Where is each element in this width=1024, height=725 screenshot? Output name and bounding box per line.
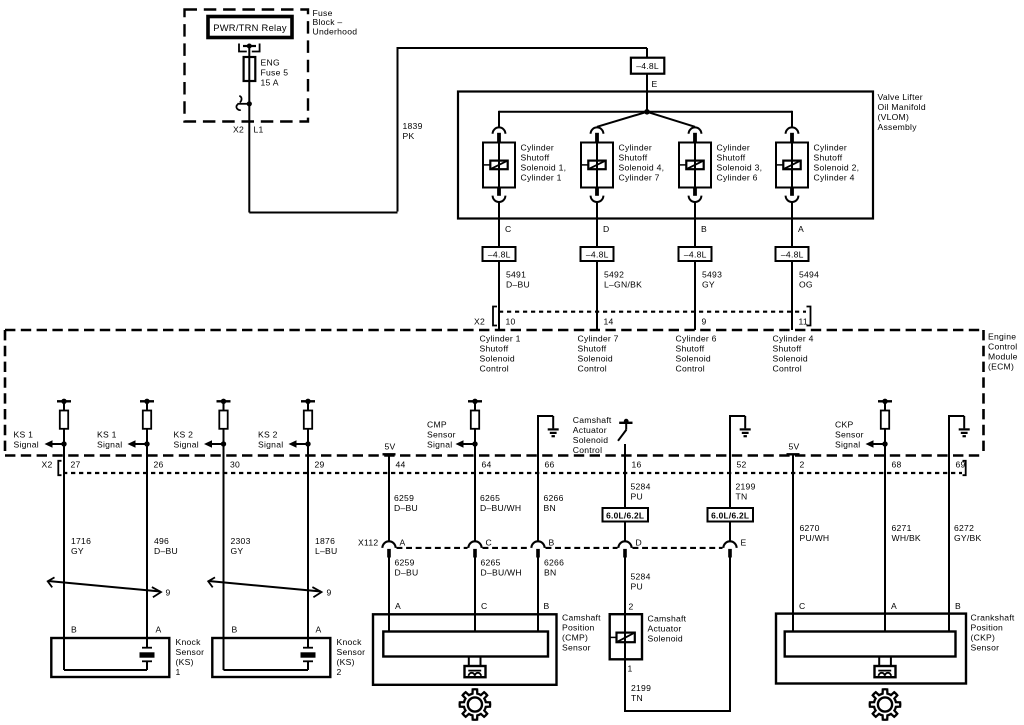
svg-text:(VLOM): (VLOM) <box>878 112 910 122</box>
twisted pair splice note 9 (KS2) <box>208 577 321 597</box>
svg-text:2199: 2199 <box>736 482 756 492</box>
svg-text:Knock: Knock <box>176 637 202 647</box>
svg-text:C: C <box>505 224 511 234</box>
connector X112 terminal A label <box>400 538 406 548</box>
connector X2 bracket right (bottom row) <box>963 461 966 475</box>
svg-text:B: B <box>544 601 550 611</box>
svg-text:11: 11 <box>799 317 808 327</box>
svg-text:E: E <box>652 79 658 89</box>
svg-text:B: B <box>955 601 961 611</box>
svg-text:BN: BN <box>544 503 556 513</box>
svg-text:–4.8L: –4.8L <box>488 249 511 259</box>
svg-text:2199: 2199 <box>631 683 651 693</box>
svg-text:9: 9 <box>166 588 171 598</box>
svg-text:Control: Control <box>573 445 602 455</box>
svg-text:OG: OG <box>799 280 813 290</box>
KS2 terminal A label <box>316 625 322 635</box>
engine option box -4.8L on wire 5493 <box>679 247 712 261</box>
svg-text:Cylinder 4: Cylinder 4 <box>773 334 814 344</box>
svg-text:Cylinder 1: Cylinder 1 <box>480 334 521 344</box>
svg-text:D–BU/WH: D–BU/WH <box>480 503 521 513</box>
svg-text:Camshaft: Camshaft <box>648 614 687 624</box>
svg-text:WH/BK: WH/BK <box>892 533 921 543</box>
svg-text:6.0L/6.2L: 6.0L/6.2L <box>711 511 749 521</box>
wire 496 D-BU label <box>154 536 178 556</box>
connector X2 label (top row) <box>474 317 485 327</box>
ECM dashed border top <box>5 329 984 332</box>
svg-text:6265: 6265 <box>480 493 500 503</box>
wire 1716 GY label <box>71 536 91 556</box>
connector X112 terminal A <box>382 541 395 557</box>
connector X112 terminal C <box>468 541 481 557</box>
VLOM pin D label <box>603 224 609 234</box>
svg-text:Sensor: Sensor <box>835 430 864 440</box>
svg-text:5V: 5V <box>788 441 799 451</box>
svg-text:A: A <box>395 601 401 611</box>
wire 6271 WH/BK label <box>892 523 921 543</box>
wire from solenoid 3 to ECM <box>694 202 696 330</box>
wire 2199 TN label (above X112) <box>736 482 756 502</box>
ECM ground (pin 52) <box>729 416 751 456</box>
KS 1 Signal label (pin 26) <box>97 430 122 450</box>
ECM pin 52 (bottom row) <box>737 460 747 470</box>
svg-text:GY/BK: GY/BK <box>954 533 982 543</box>
CMP sensor label <box>562 613 601 653</box>
splice junction inside VLOM <box>644 109 650 115</box>
svg-text:PWR/TRN Relay: PWR/TRN Relay <box>213 22 287 33</box>
wire 2199 TN (pin 52 to X112 E) <box>729 456 731 542</box>
svg-text:GY: GY <box>702 280 715 290</box>
crankshaft position CKP sensor box <box>776 614 966 684</box>
ECM pin 11 (top row) <box>799 317 808 327</box>
svg-text:15 A: 15 A <box>261 78 279 88</box>
ECM CMP sensor signal pull-up (pin 64) <box>456 399 483 448</box>
wire 6265 D-BU/WH (pin 64 to X112 C) <box>474 429 476 542</box>
knock sensor KS1 <box>51 638 169 677</box>
svg-text:6266: 6266 <box>544 493 564 503</box>
svg-text:E: E <box>741 538 747 548</box>
VLOM pin B label <box>701 224 707 234</box>
svg-text:B: B <box>232 625 238 635</box>
wire 1839 PK horizontal run <box>249 212 397 214</box>
VLOM assembly box <box>458 92 873 219</box>
svg-text:6271: 6271 <box>892 523 912 533</box>
CKP sensor label <box>971 613 1015 653</box>
svg-text:Shutoff: Shutoff <box>619 152 648 162</box>
svg-text:Cylinder: Cylinder <box>619 142 653 152</box>
svg-text:5493: 5493 <box>702 270 722 280</box>
svg-text:69: 69 <box>956 460 966 470</box>
wire 6272 GY/BK label <box>954 523 982 543</box>
connector X112 terminal B label <box>549 538 555 548</box>
fuse block - underhood dashed box <box>185 10 309 122</box>
CKP terminal A label <box>891 601 897 611</box>
cylinder shutoff solenoid 2 symbol <box>581 127 613 202</box>
svg-text:D–BU: D–BU <box>154 546 178 556</box>
svg-text:D–BU/WH: D–BU/WH <box>481 568 522 578</box>
CMP Sensor Signal label <box>427 420 456 450</box>
wire 5284 PU (pin 16 to X112 D) <box>624 456 626 542</box>
svg-text:KS 2: KS 2 <box>258 430 278 440</box>
connector X2 bracket left (bottom row) <box>58 461 61 475</box>
Camshaft Actuator Solenoid Control label <box>573 415 612 455</box>
svg-text:TN: TN <box>736 492 748 502</box>
svg-text:–4.8L: –4.8L <box>781 249 804 259</box>
svg-text:Signal: Signal <box>427 440 452 450</box>
svg-text:Control: Control <box>988 342 1017 352</box>
svg-text:Shutoff: Shutoff <box>717 152 746 162</box>
wire 6259 D-BU label (below X112) <box>395 558 419 578</box>
knock sensor KS2 label <box>337 637 366 677</box>
VLOM feed diagonal to solenoid 4 of cyl 7 <box>597 112 647 127</box>
svg-text:–4.8L: –4.8L <box>684 249 707 259</box>
wire from solenoid 2 to ECM <box>596 202 598 330</box>
svg-text:Solenoid: Solenoid <box>573 435 608 445</box>
cylinder shutoff solenoid 3 label <box>717 142 763 182</box>
svg-text:5492: 5492 <box>604 270 624 280</box>
svg-text:6266: 6266 <box>544 558 564 568</box>
cylinder shutoff solenoid 2 label <box>619 142 665 182</box>
svg-text:5284: 5284 <box>631 482 651 492</box>
wire 5284 PU label (below X112) <box>631 572 651 592</box>
svg-text:14: 14 <box>604 317 614 327</box>
svg-text:5V: 5V <box>384 441 395 451</box>
twisted pair splice note 9 (KS1) <box>48 577 161 597</box>
ECM pin 26 (bottom row) <box>154 460 164 470</box>
wire 1876 L-BU (pin 29 to KS2 A) <box>307 429 309 648</box>
svg-text:Control: Control <box>578 364 607 374</box>
wire to VLOM pin E <box>646 74 648 112</box>
svg-text:–4.8L: –4.8L <box>636 61 659 71</box>
CMP hall element legs <box>469 657 481 667</box>
svg-text:Assembly: Assembly <box>878 122 918 132</box>
svg-text:Cylinder: Cylinder <box>717 142 751 152</box>
VLOM pin C label <box>505 224 511 234</box>
wire 496 D-BU (pin 26 to KS1 A) <box>146 429 148 648</box>
svg-text:9: 9 <box>327 588 332 598</box>
circuit label 5494 OG <box>799 270 819 290</box>
ECM cylinder shutoff solenoid control label 1 <box>480 334 521 374</box>
wire 6272 GY/BK (pin 69 to CKP B) <box>948 456 950 632</box>
svg-text:X2: X2 <box>42 460 53 470</box>
svg-text:Crankshaft: Crankshaft <box>971 613 1015 623</box>
ECM KS2 signal pull-up (pin 29) <box>289 399 316 448</box>
svg-text:GY: GY <box>231 546 244 556</box>
svg-text:2: 2 <box>800 460 805 470</box>
circuit label 5492 L–GN/BK <box>604 270 642 290</box>
wire 6266 BN label (below X112) <box>544 558 564 578</box>
svg-text:Control: Control <box>773 364 802 374</box>
svg-text:(KS): (KS) <box>337 657 355 667</box>
connector X112 dashed line segment 4 <box>633 547 723 549</box>
svg-text:D–BU: D–BU <box>506 280 530 290</box>
svg-text:Shutoff: Shutoff <box>814 152 843 162</box>
wire 2199 TN (solenoid pin 1 down) <box>624 659 626 712</box>
VLOM label <box>878 92 926 132</box>
engine option box -4.8L (top) <box>631 58 664 74</box>
ECM ground (pin 66) <box>537 416 559 456</box>
svg-text:X112: X112 <box>358 538 378 548</box>
ECM pin 2 (bottom row) <box>800 460 805 470</box>
svg-text:Solenoid: Solenoid <box>480 354 515 364</box>
svg-text:B: B <box>71 625 77 635</box>
pin E label <box>652 79 658 89</box>
ECM 5V reference terminal (pin 44) <box>383 441 396 454</box>
svg-text:B: B <box>549 538 555 548</box>
svg-text:Solenoid 2,: Solenoid 2, <box>814 162 860 172</box>
svg-text:Solenoid: Solenoid <box>648 634 683 644</box>
CKP hall element legs <box>879 657 891 667</box>
cylinder shutoff solenoid 4 label <box>814 142 860 182</box>
wire 1839 PK vertical run <box>397 48 399 212</box>
svg-text:496: 496 <box>154 536 169 546</box>
svg-text:Shutoff: Shutoff <box>480 344 509 354</box>
ECM cylinder shutoff solenoid control label 2 <box>578 334 619 374</box>
svg-text:27: 27 <box>71 460 81 470</box>
wire 5284 PU label (above X112) <box>631 482 651 502</box>
relay K1 PWR/TRN Relay box <box>208 17 292 38</box>
CKP Sensor Signal label <box>835 420 864 450</box>
wire 1839 PK label <box>403 121 423 141</box>
ECM cylinder shutoff solenoid control label 4 <box>773 334 814 374</box>
svg-text:6259: 6259 <box>394 493 414 503</box>
svg-text:PU/WH: PU/WH <box>800 533 830 543</box>
svg-text:Solenoid: Solenoid <box>773 354 808 364</box>
svg-text:Camshaft: Camshaft <box>562 613 601 623</box>
wire 1876 L-BU label <box>315 536 338 556</box>
svg-text:C: C <box>486 538 492 548</box>
svg-text:Solenoid 3,: Solenoid 3, <box>717 162 763 172</box>
svg-text:Signal: Signal <box>258 440 283 450</box>
svg-text:Fuse 5: Fuse 5 <box>261 68 289 78</box>
svg-text:Module: Module <box>988 352 1018 362</box>
CMP terminal C label <box>481 601 487 611</box>
wire 1839 PK top run <box>397 48 648 58</box>
CKP hall element <box>875 666 896 677</box>
svg-text:Solenoid: Solenoid <box>578 354 613 364</box>
svg-text:Cylinder 1: Cylinder 1 <box>521 172 562 182</box>
svg-text:D: D <box>603 224 609 234</box>
engine option box -4.8L on wire 5492 <box>581 247 614 261</box>
svg-text:BN: BN <box>544 568 556 578</box>
wire 6259 D-BU label (above X112) <box>394 493 418 513</box>
VLOM pin A label <box>798 224 804 234</box>
circuit label 5491 D–BU <box>506 270 530 290</box>
svg-text:Oil Manifold: Oil Manifold <box>878 102 926 112</box>
svg-text:2303: 2303 <box>231 536 251 546</box>
svg-text:Control: Control <box>676 364 705 374</box>
ECM ground (pin 69) <box>948 416 970 456</box>
svg-text:C: C <box>481 601 487 611</box>
svg-text:5494: 5494 <box>799 270 819 280</box>
svg-text:44: 44 <box>396 460 406 470</box>
CMP hall element <box>465 666 486 677</box>
cylinder shutoff solenoid 3 symbol <box>679 127 711 202</box>
wire from solenoid 4 to ECM <box>791 202 793 330</box>
ECM pin 66 (bottom row) <box>545 460 555 470</box>
connector X112 terminal D label <box>636 538 642 548</box>
svg-text:Sensor: Sensor <box>176 647 205 657</box>
wire from fuse to X2 L1 <box>248 81 250 213</box>
svg-text:Position: Position <box>971 623 1004 633</box>
svg-text:D: D <box>636 538 642 548</box>
svg-text:A: A <box>891 601 897 611</box>
KS1 terminal A label <box>156 625 162 635</box>
svg-text:5284: 5284 <box>631 572 651 582</box>
svg-text:C: C <box>799 601 805 611</box>
connector X2 dotted line (top row) <box>499 311 806 313</box>
wire 6266 BN (pin 66 to X112 B) <box>537 456 539 542</box>
wire 6265 D-BU/WH (X112 C to CMP C) <box>474 558 476 632</box>
svg-text:10: 10 <box>506 317 516 327</box>
svg-text:29: 29 <box>315 460 325 470</box>
KS2 terminal B label <box>232 625 238 635</box>
ECM dashed border left <box>4 330 7 456</box>
svg-text:9: 9 <box>702 317 707 327</box>
svg-text:KS 1: KS 1 <box>97 430 117 440</box>
svg-text:A: A <box>798 224 804 234</box>
svg-text:68: 68 <box>892 460 902 470</box>
wire 6266 BN (X112 B to CMP B) <box>537 558 539 632</box>
svg-text:PK: PK <box>403 131 415 141</box>
svg-text:B: B <box>701 224 707 234</box>
svg-text:(ECM): (ECM) <box>988 362 1014 372</box>
svg-text:Solenoid 4,: Solenoid 4, <box>619 162 665 172</box>
VLOM feed diagonal to solenoid 3 of cyl 6 <box>647 112 695 127</box>
note 9 label (KS1) <box>166 588 171 598</box>
connector X2 label (bottom row) <box>42 460 53 470</box>
CMP sensor element bar <box>383 632 548 657</box>
fuse clip terminal top <box>239 44 260 58</box>
wire 6270 PU/WH (pin 2 to CKP C) <box>792 454 794 631</box>
actuator solenoid label <box>648 614 687 644</box>
wire 6259 D-BU (pin 44 to X112 A) <box>388 454 390 541</box>
wire 6265 D-BU/WH label (below X112) <box>481 558 522 578</box>
engine option box -4.8L on wire 5491 <box>483 247 516 261</box>
ECM pin 29 (bottom row) <box>315 460 325 470</box>
svg-text:KS 2: KS 2 <box>174 430 194 440</box>
connector X112 terminal E label <box>741 538 747 548</box>
svg-text:A: A <box>316 625 322 635</box>
CKP terminal C label <box>799 601 805 611</box>
svg-text:Cylinder 6: Cylinder 6 <box>717 172 758 182</box>
ECM KS1 signal pull-up (pin 27) <box>45 399 72 448</box>
actuator solenoid pin 2 label <box>629 602 634 612</box>
svg-text:Cylinder 6: Cylinder 6 <box>676 334 717 344</box>
svg-text:L–BU: L–BU <box>315 546 338 556</box>
svg-text:(CMP): (CMP) <box>562 633 588 643</box>
svg-text:Shutoff: Shutoff <box>773 344 802 354</box>
svg-text:CKP: CKP <box>835 420 853 430</box>
svg-text:L1: L1 <box>254 125 264 135</box>
svg-text:1: 1 <box>176 667 181 677</box>
wire 6259 D-BU (X112 A to CMP A) <box>388 558 390 632</box>
ECM pin 68 (bottom row) <box>892 460 902 470</box>
svg-text:Control: Control <box>480 364 509 374</box>
fuse F5 ENG Fuse 5 15A <box>244 57 256 81</box>
ECM dashed border right <box>982 330 985 456</box>
svg-text:Signal: Signal <box>174 440 199 450</box>
svg-text:(CKP): (CKP) <box>971 633 996 643</box>
KS 1 Signal label (pin 27) <box>14 430 39 450</box>
svg-text:Sensor: Sensor <box>427 430 456 440</box>
ECM 5V reference terminal (pin 2) <box>787 441 800 454</box>
svg-text:1839: 1839 <box>403 121 423 131</box>
svg-text:Valve Lifter: Valve Lifter <box>878 92 923 102</box>
engine option box -4.8L on wire 5494 <box>776 247 809 261</box>
svg-text:PU: PU <box>631 582 643 592</box>
connector X112 dashed line segment 2 <box>483 547 531 549</box>
svg-text:Cylinder: Cylinder <box>521 142 555 152</box>
svg-text:PU: PU <box>631 492 643 502</box>
svg-text:2: 2 <box>629 602 634 612</box>
svg-text:Knock: Knock <box>337 637 363 647</box>
svg-text:Signal: Signal <box>14 440 39 450</box>
svg-text:30: 30 <box>230 460 240 470</box>
svg-text:Cylinder 4: Cylinder 4 <box>814 172 855 182</box>
svg-text:Cylinder 7: Cylinder 7 <box>578 334 619 344</box>
svg-text:GY: GY <box>71 546 84 556</box>
svg-text:A: A <box>156 625 162 635</box>
svg-text:Actuator: Actuator <box>648 624 682 634</box>
svg-text:Camshaft: Camshaft <box>573 415 612 425</box>
svg-text:Sensor: Sensor <box>562 643 591 653</box>
ECM pin 64 (bottom row) <box>482 460 492 470</box>
engine option box 6.0L/6.2L on wire 2199 <box>708 508 754 522</box>
ECM pin 14 (top row) <box>604 317 614 327</box>
svg-text:6.0L/6.2L: 6.0L/6.2L <box>606 511 644 521</box>
svg-text:ENG: ENG <box>261 58 280 68</box>
svg-text:16: 16 <box>632 460 642 470</box>
junction at clip <box>247 101 252 106</box>
circuit label 5493 GY <box>702 270 722 290</box>
CMP terminal B label <box>544 601 550 611</box>
svg-text:Actuator: Actuator <box>573 425 607 435</box>
connector X2 dotted line (bottom row) <box>63 472 962 474</box>
wire 1716 GY (pin 27 to KS1 B) <box>63 429 65 670</box>
svg-text:Sensor: Sensor <box>971 643 1000 653</box>
wire 2199 TN label (below solenoid) <box>631 683 651 703</box>
svg-text:Sensor: Sensor <box>337 647 366 657</box>
wire 6271 WH/BK (pin 68 to CKP A) <box>884 429 886 632</box>
cylinder shutoff solenoid 1 label <box>521 142 567 182</box>
svg-text:26: 26 <box>154 460 164 470</box>
ECM CKP sensor signal pull-up (pin 68) <box>866 399 893 448</box>
svg-text:Shutoff: Shutoff <box>521 152 550 162</box>
svg-text:Cylinder 7: Cylinder 7 <box>619 172 660 182</box>
connector X112 terminal C label <box>486 538 492 548</box>
svg-text:CMP: CMP <box>427 420 447 430</box>
ECM KS2 signal pull-up (pin 30) <box>204 399 231 448</box>
svg-text:Solenoid: Solenoid <box>676 354 711 364</box>
connector X112 terminal B <box>531 541 544 557</box>
wire 6270 PU/WH label <box>800 523 830 543</box>
svg-text:Signal: Signal <box>835 440 860 450</box>
connector X2 bracket left (top row) <box>493 307 497 326</box>
connector X112 dashed line segment 1 <box>397 547 468 549</box>
svg-text:D–BU: D–BU <box>395 568 419 578</box>
VLOM feed bus right <box>647 111 792 127</box>
svg-text:66: 66 <box>545 460 555 470</box>
cylinder shutoff solenoid 1 symbol <box>483 127 515 202</box>
svg-text:(KS): (KS) <box>176 657 194 667</box>
fuse block label <box>313 8 358 36</box>
note 9 label (KS2) <box>327 588 332 598</box>
svg-text:6265: 6265 <box>481 558 501 568</box>
connector X112 terminal D <box>618 541 631 557</box>
CKP sensor element bar <box>785 632 956 657</box>
svg-text:Cylinder: Cylinder <box>814 142 848 152</box>
